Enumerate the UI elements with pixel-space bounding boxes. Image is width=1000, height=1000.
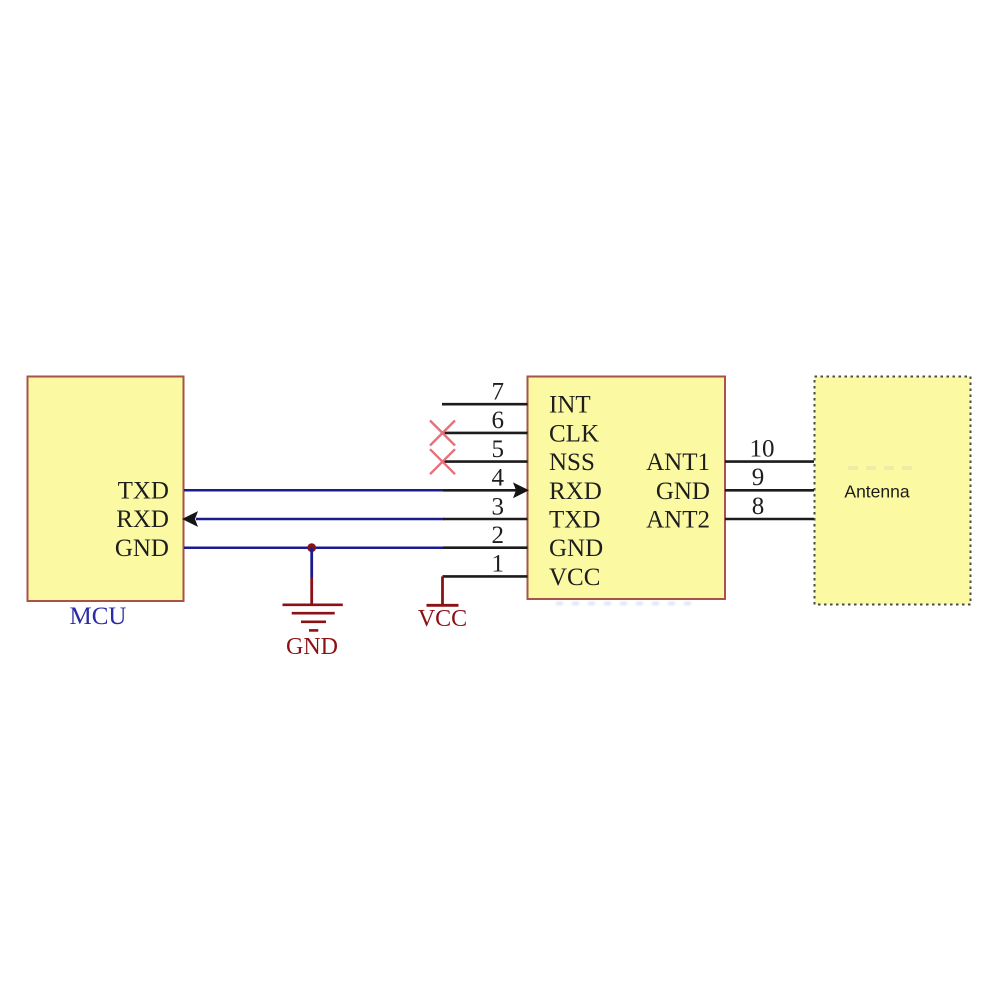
wire junction down (blue) xyxy=(310,548,313,578)
svg-text:ANT2: ANT2 xyxy=(646,507,710,534)
wire pin 6 xyxy=(442,432,528,435)
faint erased watermark under module xyxy=(556,602,700,606)
svg-text:2: 2 xyxy=(492,522,505,549)
no-connect X pin 6 xyxy=(430,421,455,446)
antenna box xyxy=(815,377,971,605)
svg-text:TXD: TXD xyxy=(549,507,600,534)
svg-text:ANT1: ANT1 xyxy=(646,449,710,476)
arrowhead into pin 4 xyxy=(513,482,529,498)
wire pin 4 (black segment) xyxy=(443,489,516,492)
faint smudge in antenna box xyxy=(848,466,916,470)
svg-text:GND: GND xyxy=(115,535,169,562)
wire pin 2 (black segment) xyxy=(443,546,528,549)
VCC symbol stem xyxy=(441,576,444,604)
svg-text:9: 9 xyxy=(752,464,765,491)
wire RXD MCU from pin 3 (blue segment) xyxy=(196,518,444,521)
svg-text:3: 3 xyxy=(492,493,505,520)
junction dot on GND net xyxy=(307,543,316,552)
no-connect X pin 5 xyxy=(430,449,455,474)
svg-text:GND: GND xyxy=(656,478,710,505)
VCC symbol bar xyxy=(427,604,459,607)
svg-text:8: 8 xyxy=(752,493,765,520)
wire pin 5 xyxy=(442,460,528,463)
svg-text:RXD: RXD xyxy=(116,506,169,533)
svg-text:Antenna: Antenna xyxy=(844,482,909,502)
wire pin 3 (black segment) xyxy=(443,518,528,521)
wire pin 10 xyxy=(725,460,814,463)
svg-text:VCC: VCC xyxy=(549,564,600,591)
wire pin 7 xyxy=(442,403,528,406)
svg-text:GND: GND xyxy=(286,634,338,660)
svg-text:5: 5 xyxy=(492,436,505,463)
wire pin 9 xyxy=(725,489,814,492)
svg-text:VCC: VCC xyxy=(418,606,467,632)
svg-text:1: 1 xyxy=(492,551,505,578)
wire TXD MCU to pin 4 (blue segment) xyxy=(184,489,444,492)
ground symbol xyxy=(283,605,343,631)
wire pin 8 xyxy=(725,518,814,521)
svg-text:CLK: CLK xyxy=(549,420,599,447)
svg-text:4: 4 xyxy=(492,465,505,492)
svg-text:TXD: TXD xyxy=(118,478,169,505)
wire junction down (dark red) xyxy=(310,578,313,605)
svg-text:RXD: RXD xyxy=(549,478,602,505)
MCU box xyxy=(28,377,184,602)
svg-text:INT: INT xyxy=(549,392,591,419)
svg-text:MCU: MCU xyxy=(70,603,127,630)
svg-text:NSS: NSS xyxy=(549,449,595,476)
arrowhead into MCU RXD xyxy=(182,511,198,527)
svg-text:6: 6 xyxy=(492,407,505,434)
RF module U1 box xyxy=(528,377,726,600)
wire pin 1 xyxy=(443,575,528,578)
svg-text:10: 10 xyxy=(750,435,775,462)
wire GND MCU to pin 2 (blue segment) xyxy=(184,546,444,549)
svg-text:7: 7 xyxy=(492,379,505,406)
svg-text:GND: GND xyxy=(549,535,603,562)
